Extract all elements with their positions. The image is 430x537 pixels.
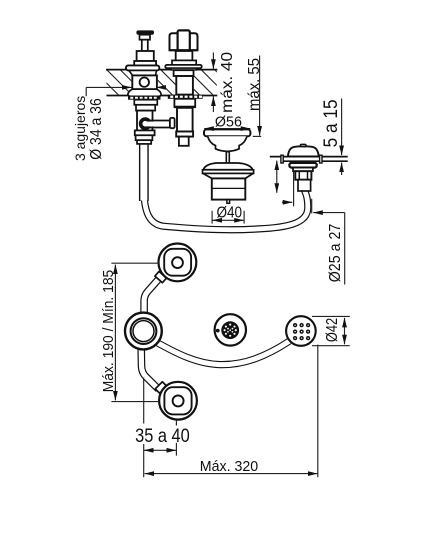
spray head flange under rim — [289, 163, 316, 168]
drain body joint line — [212, 187, 246, 189]
dimension: D56 — [204, 128, 250, 130]
left valve hose ring 2 — [137, 140, 151, 144]
dimension: Max 320 — [145, 345, 318, 478]
pop-up plug stem — [226, 152, 229, 164]
svg-text:3 agujeros: 3 agujeros — [72, 96, 88, 161]
flexible hose (side view, valve to spray head) — [144, 142, 308, 230]
label 3 agujeros leader — [86, 87, 166, 96]
right valve collar — [174, 99, 195, 107]
bidet rim plate top line — [270, 156, 348, 158]
top view: top escutcheon outer circle — [159, 244, 197, 282]
svg-text:Ø40: Ø40 — [217, 204, 243, 221]
dimension: D42 — [312, 316, 350, 345]
dimension: max 40 upper arrow — [212, 53, 214, 113]
svg-text:35 a 40: 35 a 40 — [135, 425, 190, 447]
right valve hex cap bottom edge — [170, 49, 198, 51]
drain cone left — [203, 173, 212, 178]
right valve upper collar in hole — [174, 70, 194, 76]
right valve body in hole — [176, 76, 193, 95]
dimension: D25 a 27 — [282, 170, 345, 285]
pop-up plug disc — [204, 129, 250, 136]
drain flange dome — [203, 163, 252, 170]
left valve stem — [142, 40, 148, 51]
spray head clamp tick right — [320, 155, 322, 163]
right valve shank tip — [179, 137, 189, 146]
bidet rim plate bottom line — [283, 160, 348, 162]
dimension: max 55 — [253, 56, 262, 137]
left valve hose nut — [135, 130, 155, 135]
right valve knurled locknut — [168, 95, 203, 99]
top view: bottom escutcheon outer circle — [159, 382, 197, 420]
right valve neck — [176, 51, 193, 60]
top view: bottom escutcheon center hole — [173, 395, 184, 406]
spray head washer — [293, 168, 313, 172]
countertop bottom line — [107, 95, 218, 97]
left valve body circle — [140, 78, 149, 87]
drain bottom pin — [227, 200, 230, 204]
right valve shank — [177, 108, 193, 132]
left valve bonnet step — [134, 61, 156, 65]
right valve shank step — [176, 132, 193, 137]
top view: top escutcheon rounded square — [164, 249, 191, 276]
top view: tube to bottom escutcheon — [141, 348, 167, 394]
right valve deck flange — [165, 65, 201, 68]
top view: bottom escutcheon rounded square — [164, 387, 191, 414]
svg-text:Ø56: Ø56 — [215, 114, 242, 131]
top view: pop-up lever dot — [216, 329, 220, 333]
top view: transfer ring handle circles — [125, 313, 162, 350]
dimension: spray depth double arrow — [276, 161, 278, 193]
left valve knurled locknut — [128, 96, 161, 100]
svg-text:Ø42: Ø42 — [324, 318, 341, 342]
spray head clamp tick left — [281, 155, 283, 163]
dimension: 35 a 40 — [144, 378, 177, 478]
pop-up plug skirt — [208, 136, 247, 151]
outlet pipe bottom line — [148, 127, 170, 129]
spray head hose collar — [298, 180, 311, 191]
dimension: 5 a 15 — [341, 99, 343, 176]
left valve hose ring 1 — [136, 135, 153, 140]
spray head dome — [288, 146, 319, 156]
drain cone right — [245, 173, 253, 178]
left valve lower body — [137, 111, 153, 131]
spray head dome knob — [300, 144, 306, 146]
dimension: Max 190 / Min 185 — [111, 263, 158, 401]
countertop top line — [106, 69, 217, 71]
left valve bonnet box — [137, 51, 154, 61]
left valve handle cap (black) — [136, 30, 154, 34]
right valve collar bottom edge — [174, 106, 196, 108]
drain body cylinder — [212, 178, 246, 199]
right valve hex cap — [170, 33, 198, 50]
dimension: D40 — [212, 211, 244, 224]
right valve base ring — [171, 68, 196, 70]
top view: top escutcheon center hole — [172, 257, 183, 268]
drain flange rim — [203, 170, 254, 174]
top view: drain strainer disc — [221, 321, 239, 339]
top view: strainer holes — [224, 324, 237, 337]
countertop cross-section hatch — [93, 69, 255, 96]
top view: spray head circle — [286, 316, 316, 346]
left valve collar — [134, 100, 157, 105]
svg-text:Ø 34 a 36: Ø 34 a 36 — [88, 98, 105, 160]
outlet pipe end ferrule — [170, 118, 175, 128]
outlet pipe interior — [145, 122, 170, 127]
right valve hex cap center facet — [178, 30, 190, 50]
top view: spray holes 3x3 — [293, 323, 310, 340]
left valve deck flange — [126, 65, 159, 70]
left valve upper body — [136, 105, 155, 111]
left valve neck-down through deck — [129, 70, 157, 75]
left valve outlet elbow — [141, 119, 150, 128]
svg-text:5 a 15: 5 a 15 — [320, 99, 342, 147]
outlet pipe top line — [148, 120, 170, 122]
svg-text:Máx. 190 / Mín. 185: Máx. 190 / Mín. 185 — [100, 270, 117, 393]
svg-text:Ø25 a 27: Ø25 a 27 — [327, 224, 344, 283]
svg-text:máx. 55: máx. 55 — [246, 58, 263, 111]
top view: drain outer circle — [215, 314, 246, 345]
spray head nut facets — [298, 171, 300, 180]
svg-text:máx. 40: máx. 40 — [219, 52, 236, 113]
right valve step — [172, 60, 196, 65]
left valve handle block — [140, 35, 151, 40]
spray head nut — [295, 171, 311, 180]
top view: sweep tube to spray head — [155, 341, 290, 365]
left valve body in hole — [132, 75, 157, 89]
left valve skirt under deck — [128, 89, 161, 96]
top view: tube to top escutcheon — [144, 271, 166, 314]
svg-text:Máx. 320: Máx. 320 — [200, 458, 258, 475]
